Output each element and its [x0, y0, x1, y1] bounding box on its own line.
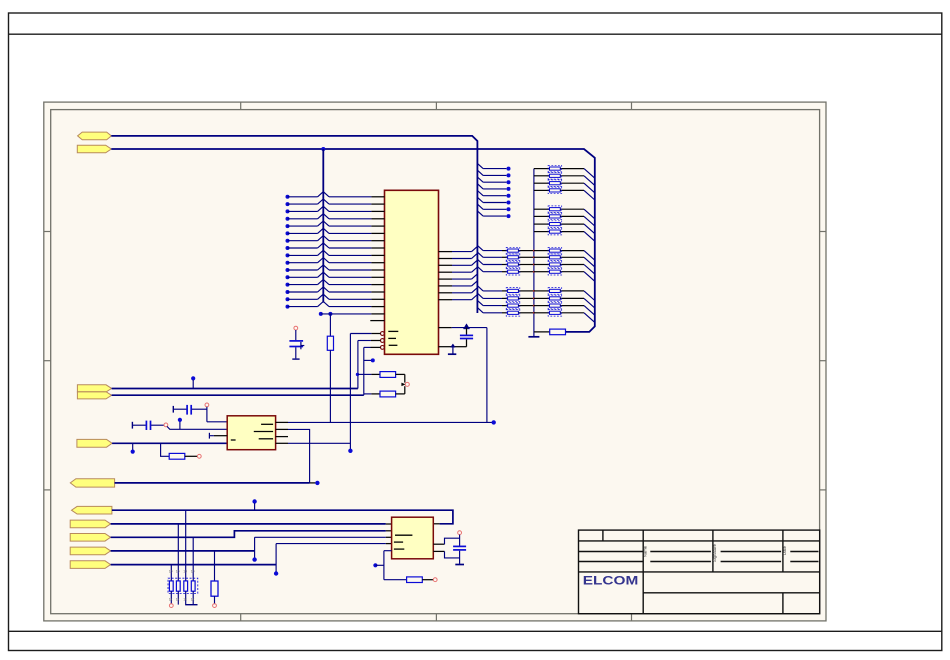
svg-text:1k: 1k [169, 598, 173, 602]
svg-text:1k: 1k [191, 598, 195, 602]
svg-text:Date: Date [782, 545, 787, 555]
svg-text:ELCOM: ELCOM [583, 574, 639, 588]
svg-text:Signature: Signature [712, 543, 717, 562]
svg-text:Name: Name [643, 545, 648, 557]
svg-text:10: 10 [176, 570, 180, 574]
svg-text:1k: 1k [183, 598, 187, 602]
svg-text:10: 10 [183, 570, 187, 574]
svg-text:1k: 1k [176, 598, 180, 602]
svg-text:10: 10 [169, 570, 173, 574]
svg-text:10: 10 [191, 570, 195, 574]
